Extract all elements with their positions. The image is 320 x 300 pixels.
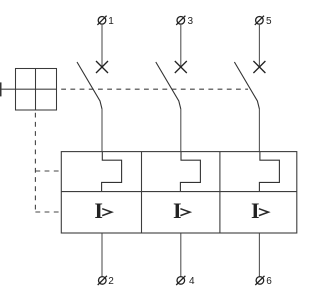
svg-text:I: I	[251, 198, 260, 223]
trip linkage dashed stub magnetic	[35, 211, 61, 213]
svg-text:1: 1	[108, 16, 114, 27]
wire trip box to terminal 2	[101, 233, 103, 277]
terminal 3 circle	[176, 16, 185, 25]
switch blade pole 1	[77, 62, 102, 109]
terminal 3 label	[188, 16, 194, 27]
breaker function X pole 2	[175, 61, 187, 73]
breaker function X pole 1	[96, 61, 108, 73]
operator link line	[1, 88, 57, 90]
wire blade to trip box pole 3	[258, 109, 260, 152]
terminal 5 label	[266, 16, 272, 27]
actuator cross vertical	[35, 69, 37, 111]
wire terminal1 to contact	[101, 24, 103, 67]
trip linkage dashed stub thermal	[35, 170, 61, 172]
terminal 1 label	[108, 16, 114, 27]
trip unit divider 1	[141, 152, 143, 233]
svg-text:5: 5	[266, 16, 272, 27]
svg-text:6: 6	[266, 276, 272, 287]
wire terminal3 to contact	[180, 24, 182, 67]
terminal 5 circle	[255, 16, 264, 25]
switch blade pole 2	[156, 62, 181, 109]
terminal 6 label	[266, 276, 272, 287]
operator end-stop tick	[0, 82, 2, 96]
switch blade pole 3	[234, 62, 259, 109]
wire blade to trip box pole 2	[180, 109, 182, 152]
thermal overload element pole 1	[102, 152, 122, 192]
actuator square	[16, 69, 57, 111]
trip unit box	[61, 152, 296, 233]
thermal overload element pole 2	[180, 152, 200, 192]
magnetic overcurrent label pole 2	[173, 198, 190, 223]
thermal overload element pole 3	[259, 152, 279, 192]
wire blade to trip box pole 1	[101, 109, 103, 152]
svg-text:4: 4	[189, 276, 195, 287]
wire trip box to terminal 6	[258, 233, 260, 277]
wire trip box to terminal 4	[180, 233, 182, 277]
trip linkage dashed vertical	[34, 110, 36, 212]
wire terminal5 to contact	[258, 24, 260, 67]
terminal 4 label	[189, 276, 195, 287]
svg-text:2: 2	[108, 276, 114, 287]
magnetic overcurrent label pole 1	[94, 198, 111, 223]
breaker function X pole 3	[253, 61, 265, 73]
mechanical linkage dashed horizontal	[57, 88, 248, 90]
terminal 6 circle	[255, 276, 264, 285]
trip unit middle divider	[61, 191, 296, 193]
magnetic overcurrent label pole 3	[251, 198, 268, 223]
svg-text:3: 3	[188, 16, 194, 27]
terminal 4 circle	[176, 276, 185, 285]
trip unit divider 2	[219, 152, 221, 233]
terminal 2 circle	[98, 276, 107, 285]
terminal 1 circle	[97, 16, 106, 25]
svg-text:I: I	[173, 198, 182, 223]
svg-text:I: I	[94, 198, 103, 223]
terminal 2 label	[108, 276, 114, 287]
